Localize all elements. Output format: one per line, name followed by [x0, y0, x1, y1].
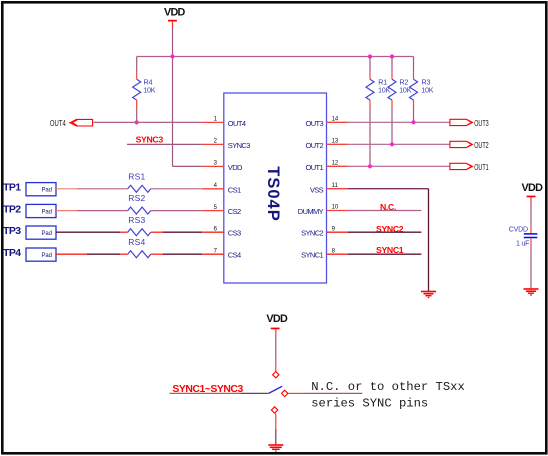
svg-text:Pad: Pad [42, 253, 52, 259]
svg-text:11: 11 [332, 183, 339, 189]
ground (switch) [268, 445, 283, 451]
svg-text:CS2: CS2 [228, 207, 241, 216]
pin 4 CS1 [202, 183, 241, 194]
pin 1 OUT4 [202, 117, 246, 128]
switch SW1 (SPDT select) [269, 372, 288, 414]
svg-text:SYNC2: SYNC2 [301, 229, 323, 238]
junction at VDD/top rail [170, 54, 174, 58]
svg-text:1 uF: 1 uF [516, 241, 529, 248]
svg-text:OUT1: OUT1 [474, 163, 489, 172]
svg-text:OUT1: OUT1 [305, 163, 323, 172]
junction R2/OUT2 [390, 142, 394, 146]
resistor R3 10K [410, 57, 434, 123]
svg-text:RS1: RS1 [128, 171, 145, 181]
pin 12 OUT1 [305, 161, 347, 172]
ground (CVDD) [524, 289, 539, 295]
resistor R4 10K [133, 57, 156, 123]
pin 5 CS2 [202, 205, 241, 216]
svg-text:14: 14 [332, 117, 339, 123]
svg-text:CS1: CS1 [228, 185, 241, 194]
junction at R1/top rail [368, 54, 372, 58]
test point TP2 [3, 203, 56, 217]
svg-text:CS4: CS4 [228, 251, 241, 260]
wire: TP1 to RS1 [56, 188, 128, 190]
resistor R2 10K [388, 57, 412, 145]
annotation text [311, 380, 465, 410]
op IC U1 TS04P body [224, 93, 327, 283]
pin 7 CS4 [202, 248, 241, 259]
svg-text:VDD: VDD [228, 163, 243, 172]
wire: top rail y=56.5 [137, 56, 414, 58]
wire: pin 12 to OUT1 connector [348, 165, 450, 167]
wire: switch bottom to ground [276, 413, 429, 444]
svg-text:CS3: CS3 [228, 229, 241, 238]
svg-text:10K: 10K [421, 86, 434, 95]
svg-text:OUT2: OUT2 [474, 141, 489, 150]
svg-text:RS3: RS3 [128, 215, 145, 225]
test point TP3 [3, 225, 56, 239]
off-page connector OUT2 [450, 141, 489, 150]
svg-text:SYNC3: SYNC3 [228, 141, 250, 150]
pin 13 OUT2 [305, 139, 347, 150]
wire: RS1 to pin 4 [151, 188, 203, 190]
junction at R2/top rail [390, 54, 394, 58]
junction R3/OUT3 [411, 120, 415, 124]
power symbol VDD (top) [164, 6, 186, 28]
wire: RS3 to pin 6 [151, 231, 203, 233]
svg-text:VDD: VDD [522, 182, 544, 194]
pin 9 SYNC2 [301, 226, 348, 237]
svg-text:SYNC1: SYNC1 [376, 245, 404, 255]
svg-text:N.C.: N.C. [380, 202, 396, 212]
wire: pin 13 to OUT2 connector [348, 143, 450, 145]
svg-text:VDD: VDD [266, 313, 288, 325]
svg-text:OUT3: OUT3 [474, 119, 489, 128]
test point TP1 [3, 182, 56, 196]
svg-text:TP4: TP4 [3, 247, 21, 259]
wire: pin 14 to OUT3 connector [348, 121, 450, 123]
resistor R1 10K [366, 57, 391, 167]
power symbol VDD (right) [522, 182, 544, 204]
svg-text:OUT2: OUT2 [305, 141, 323, 150]
off-page connector OUT1 [450, 163, 489, 172]
wire: OUT4 to pin 1 [94, 121, 203, 123]
wire: TP2 to RS2 [56, 210, 128, 212]
svg-text:SYNC3: SYNC3 [136, 135, 164, 145]
svg-text:12: 12 [332, 161, 339, 167]
resistor RS2 [128, 193, 151, 214]
junction R4/OUT4 wire [135, 120, 139, 124]
wire: VSS to ground [348, 189, 429, 291]
svg-text:OUT4: OUT4 [228, 119, 246, 128]
off-page connector OUT3 [450, 119, 489, 128]
svg-text:13: 13 [332, 139, 339, 145]
pin 10 DUMMY [298, 205, 348, 216]
svg-text:series SYNC pins: series SYNC pins [311, 397, 428, 411]
svg-text:VSS: VSS [310, 185, 324, 194]
svg-text:OUT3: OUT3 [305, 119, 323, 128]
svg-text:TP3: TP3 [3, 225, 21, 237]
svg-text:VDD: VDD [164, 6, 186, 18]
pin 3 VDD [202, 161, 243, 172]
svg-text:Pad: Pad [42, 209, 52, 215]
wire: pin 10 N.C. stub [348, 210, 422, 212]
wire: SYNC3 to pin 2 [127, 143, 202, 145]
svg-text:SYNC2: SYNC2 [376, 224, 404, 234]
svg-text:10K: 10K [143, 86, 156, 95]
svg-text:Pad: Pad [42, 188, 52, 194]
pin 6 CS3 [202, 226, 241, 237]
svg-text:RS4: RS4 [128, 237, 145, 247]
svg-text:RS2: RS2 [128, 193, 145, 203]
svg-text:OUT4: OUT4 [50, 119, 66, 128]
svg-text:10: 10 [332, 205, 339, 211]
wire: TP3 to RS3 [56, 231, 128, 233]
svg-text:Pad: Pad [42, 231, 52, 237]
svg-text:TP2: TP2 [3, 203, 21, 215]
pin 8 SYNC1 [301, 248, 348, 259]
svg-text:DUMMY: DUMMY [298, 207, 324, 216]
wire: pin 9 SYNC2 stub [348, 231, 422, 233]
pin 14 OUT3 [305, 117, 347, 128]
ground (VSS) [421, 292, 436, 298]
wire: VDD vertical to pin 3 [173, 28, 203, 166]
wire: VDD to CVDD [530, 204, 532, 227]
wire: SYNC1~SYNC3 to switch common [170, 392, 269, 394]
svg-text:TP1: TP1 [3, 182, 21, 194]
test point TP4 [3, 247, 56, 261]
wire: CVDD to ground [530, 245, 532, 289]
wire: RS4 to pin 7 [151, 253, 203, 255]
wire: RS2 to pin 5 [151, 210, 203, 212]
wire: VDD to switch top [275, 336, 277, 371]
power symbol VDD (bottom) [266, 313, 288, 336]
pin 2 SYNC3 [202, 139, 250, 150]
wire: TP4 to RS4 [56, 253, 128, 255]
wire: pin 8 SYNC1 stub [348, 253, 422, 255]
off-page connector OUT4 [50, 119, 93, 128]
svg-text:TS04P: TS04P [264, 166, 282, 221]
svg-text:CVDD: CVDD [509, 226, 528, 233]
resistor RS4 [128, 237, 151, 258]
junction R1/OUT1 [368, 164, 372, 168]
svg-text:SYNC1: SYNC1 [301, 251, 323, 260]
resistor RS1 [128, 171, 151, 192]
svg-text:N.C. or to other TSxx: N.C. or to other TSxx [311, 380, 465, 394]
wire: switch right to N.C. [288, 392, 362, 394]
pin 11 VSS [310, 183, 348, 194]
resistor RS3 [128, 215, 151, 236]
capacitor CVDD 1uF [509, 226, 538, 247]
